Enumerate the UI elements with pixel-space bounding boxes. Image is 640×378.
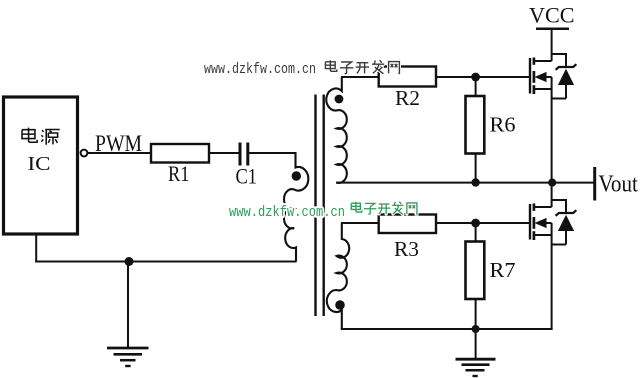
polarity dot secondary 2 — [335, 300, 345, 310]
wire VCC to drain Q1 — [551, 29, 553, 61]
node Vout terminal bar — [593, 167, 596, 201]
wire Q2 source down to bottom rail — [551, 223, 553, 329]
wire junction to R7 — [475, 223, 477, 242]
svg-text:www.dzkfw.com.cn: www.dzkfw.com.cn — [204, 62, 316, 78]
wire R3 to gate Q2 — [436, 222, 530, 224]
resistor R3 — [379, 215, 436, 234]
resistor R7 — [466, 242, 485, 300]
wire secondary2 to R3 — [341, 222, 379, 224]
wire C1 to primary — [248, 152, 296, 154]
wire PWM to R1 — [87, 152, 151, 154]
junction net1 R6 — [471, 73, 480, 82]
capacitor C1 — [240, 143, 248, 166]
wire Q2 drain up to Vout rail — [551, 183, 553, 208]
wire primary return rail — [35, 261, 296, 263]
wire secondary2 bottom rail — [341, 328, 553, 330]
resistor R2 — [379, 67, 436, 87]
node PWM output terminal circle — [81, 150, 88, 157]
svg-text:R3: R3 — [394, 237, 419, 261]
junction rail2 to ground — [472, 325, 480, 333]
wire R1 to C1 — [209, 152, 239, 154]
wire junction to R6 — [475, 77, 477, 96]
transformer T1 primary winding — [284, 152, 308, 262]
polarity dot secondary 1 — [335, 95, 344, 104]
junction R6 on Vout rail — [471, 178, 479, 186]
transformer T1 core — [316, 95, 324, 317]
wire IC bottom stem — [35, 233, 37, 263]
ground symbol 2 — [456, 359, 496, 376]
transistor Q2 MOSFET with body diode — [530, 200, 576, 245]
svg-text:R2: R2 — [395, 86, 420, 110]
wire R2 to gate Q1 — [436, 76, 530, 78]
watermark text 电子开发网 green — [351, 202, 362, 212]
transformer T1 secondary 1 winding — [326, 77, 347, 183]
ground symbol 1 — [107, 348, 149, 366]
junction Q1/Q2 on Vout rail — [548, 179, 556, 187]
transformer T1 secondary 2 winding — [327, 223, 349, 329]
wire ground2 stem — [475, 329, 477, 359]
resistor R1 — [151, 144, 209, 163]
resistor R6 — [466, 96, 485, 154]
op-amp U1 power IC box 电源IC — [4, 97, 78, 234]
svg-text:R6: R6 — [490, 113, 516, 137]
junction net2 R7 — [471, 219, 480, 228]
wire R7 to bottom rail — [475, 299, 477, 329]
svg-text:VCC: VCC — [529, 2, 575, 27]
power VCC bar — [536, 27, 569, 30]
svg-text:R1: R1 — [168, 161, 190, 186]
wire Q1 source down to Vout rail — [551, 77, 553, 183]
polarity dot primary — [292, 171, 301, 180]
wire secondary1 to R2 — [341, 76, 379, 78]
watermark text 电子开发网 dark — [325, 60, 336, 71]
svg-text:R7: R7 — [490, 258, 516, 282]
svg-text:www.dzkfw.com.cn: www.dzkfw.com.cn — [229, 205, 345, 221]
wire ground1 stem — [127, 262, 129, 349]
svg-text:C1: C1 — [236, 164, 258, 189]
wire Vout rail — [336, 182, 595, 184]
svg-text:Vout: Vout — [598, 172, 638, 198]
junction primary return to ground — [125, 257, 134, 266]
svg-text:IC: IC — [28, 153, 51, 175]
wire R6 to Vout rail — [475, 154, 477, 183]
transistor Q1 MOSFET with body diode — [530, 54, 576, 99]
